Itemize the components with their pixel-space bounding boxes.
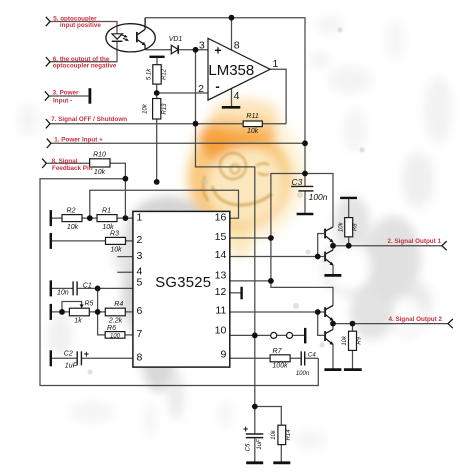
svg-text:R5: R5 bbox=[85, 301, 94, 308]
svg-text:10: 10 bbox=[215, 325, 227, 337]
svg-text:14: 14 bbox=[215, 249, 227, 261]
svg-text:R1: R1 bbox=[102, 207, 111, 214]
svg-text:LM358: LM358 bbox=[208, 62, 254, 79]
svg-text:1: 1 bbox=[272, 58, 278, 70]
svg-text:2.2k: 2.2k bbox=[108, 318, 123, 325]
svg-text:10k: 10k bbox=[110, 247, 122, 254]
svg-text:R11: R11 bbox=[246, 113, 258, 120]
svg-text:1uF: 1uF bbox=[65, 362, 78, 369]
svg-text:R6: R6 bbox=[107, 325, 116, 332]
svg-text:100k: 100k bbox=[272, 363, 288, 370]
svg-text:10k: 10k bbox=[67, 224, 79, 231]
svg-text:2: 2 bbox=[137, 234, 143, 246]
svg-text:8: 8 bbox=[137, 352, 143, 364]
svg-text:9: 9 bbox=[220, 349, 226, 361]
svg-text:R12: R12 bbox=[162, 68, 168, 80]
svg-text:-: - bbox=[215, 79, 219, 94]
svg-text:+: + bbox=[243, 424, 248, 434]
svg-text:C2: C2 bbox=[64, 350, 73, 357]
svg-text:4: 4 bbox=[137, 265, 143, 277]
svg-text:optocoupler negative: optocoupler negative bbox=[53, 62, 117, 69]
svg-text:SG3525: SG3525 bbox=[155, 275, 211, 291]
svg-text:5.1k: 5.1k bbox=[147, 68, 153, 80]
svg-text:C1: C1 bbox=[83, 282, 92, 289]
svg-text:7: 7 bbox=[137, 328, 143, 340]
svg-text:1k: 1k bbox=[74, 318, 82, 325]
svg-text:VD1: VD1 bbox=[169, 36, 183, 43]
svg-text:R3: R3 bbox=[110, 230, 119, 237]
svg-text:C5: C5 bbox=[246, 443, 252, 451]
svg-text:10k: 10k bbox=[342, 335, 348, 346]
svg-text:100: 100 bbox=[110, 333, 121, 339]
svg-text:5: 5 bbox=[137, 277, 143, 289]
svg-text:7. Signal OFF / Shutdown: 7. Signal OFF / Shutdown bbox=[51, 116, 127, 123]
svg-text:10k: 10k bbox=[339, 221, 345, 232]
svg-text:R7: R7 bbox=[273, 348, 283, 355]
svg-text:Input -: Input - bbox=[53, 98, 72, 105]
svg-text:4: 4 bbox=[234, 90, 240, 102]
svg-text:10k: 10k bbox=[94, 169, 106, 176]
svg-text:R9: R9 bbox=[356, 336, 362, 344]
svg-text:input positive: input positive bbox=[60, 22, 101, 29]
svg-text:4. Signal Output 2: 4. Signal Output 2 bbox=[388, 316, 442, 323]
svg-text:R8: R8 bbox=[353, 223, 359, 231]
svg-text:+: + bbox=[84, 349, 89, 359]
svg-text:R14: R14 bbox=[286, 429, 292, 441]
svg-text:+: + bbox=[214, 44, 221, 58]
svg-text:10k: 10k bbox=[143, 103, 149, 114]
svg-text:R13: R13 bbox=[162, 103, 168, 115]
svg-text:13: 13 bbox=[215, 269, 227, 281]
svg-text:3: 3 bbox=[137, 250, 143, 262]
svg-text:2: 2 bbox=[198, 83, 204, 95]
svg-text:6: 6 bbox=[137, 305, 143, 317]
svg-text:1uF: 1uF bbox=[257, 439, 263, 450]
svg-text:R10: R10 bbox=[93, 152, 106, 159]
svg-text:100n: 100n bbox=[309, 192, 328, 202]
svg-text:3: 3 bbox=[199, 40, 205, 52]
svg-text:10k: 10k bbox=[247, 128, 259, 135]
svg-text:3. Power: 3. Power bbox=[53, 90, 79, 97]
svg-text:R4: R4 bbox=[114, 301, 123, 308]
svg-text:1: 1 bbox=[137, 211, 143, 223]
svg-text:C4: C4 bbox=[308, 353, 316, 359]
svg-text:16: 16 bbox=[215, 211, 227, 223]
svg-text:100n: 100n bbox=[296, 371, 310, 377]
svg-text:R2: R2 bbox=[67, 207, 76, 214]
svg-text:11: 11 bbox=[215, 305, 226, 317]
svg-text:2. Signal Output 1: 2. Signal Output 1 bbox=[387, 238, 441, 245]
svg-text:8: 8 bbox=[234, 40, 240, 52]
svg-text:10k: 10k bbox=[271, 429, 277, 440]
svg-text:1. Power Input +: 1. Power Input + bbox=[54, 136, 103, 143]
svg-text:Feedback Pin: Feedback Pin bbox=[52, 165, 93, 172]
svg-text:C3: C3 bbox=[292, 177, 303, 187]
svg-text:15: 15 bbox=[215, 231, 227, 243]
svg-text:10n: 10n bbox=[57, 290, 69, 297]
svg-text:12: 12 bbox=[215, 286, 227, 298]
